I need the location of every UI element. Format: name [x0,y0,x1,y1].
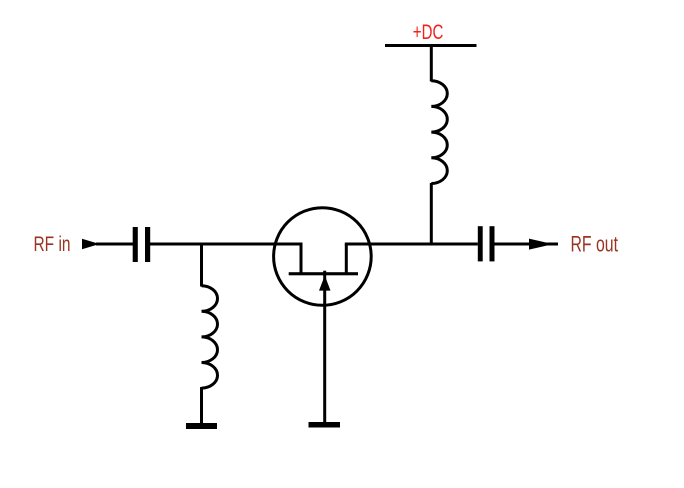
wire: gate to ground [323,271,326,423]
output arrowhead [529,239,553,250]
ground (gate) [309,422,341,428]
wire: L2 to +DC rail [430,46,433,82]
wire: drain to C2 [345,243,478,246]
capacitor C2 (output coupling) left plate [478,226,483,261]
input arrowhead [82,239,100,250]
capacitor C1 (input coupling) left plate [133,227,138,262]
wire: C2 to RF out [494,243,558,246]
inductor L1 (source choke) [202,286,218,388]
Q1 source lead vertical [300,244,303,274]
svg-text:+DC: +DC [413,20,444,44]
transistor Q1 JFET body circle [274,208,372,306]
wire: L1 to ground [200,387,203,424]
wire: junction down to L1 [200,244,203,287]
inductor L2 (drain choke) [431,81,447,184]
Q1 drain lead vertical [345,244,348,274]
wire: drain node up to L2 [430,183,433,244]
ground (source choke) [186,423,217,429]
Q1 gate arrowhead [319,276,331,291]
capacitor C2 right plate [490,226,495,261]
wire: C1 to JFET source [150,243,303,246]
Q1 channel bar [289,272,358,275]
wire: RF in arrow to C1 [96,243,133,246]
capacitor C1 right plate [145,227,150,262]
svg-text:RF out: RF out [571,231,619,256]
+DC rail [385,44,477,47]
svg-text:RF in: RF in [34,232,71,256]
